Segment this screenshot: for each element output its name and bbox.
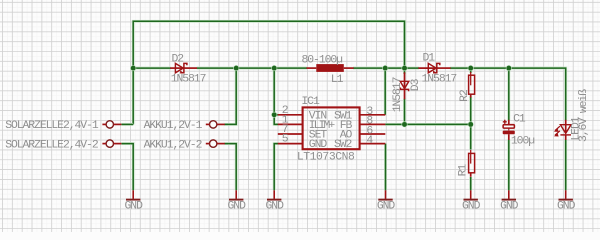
wire VIN branch bbox=[274, 113, 278, 116]
junction VIN pin bbox=[271, 112, 277, 118]
svg-text:1N5817: 1N5817 bbox=[422, 73, 457, 85]
resistor R1 bbox=[469, 153, 475, 172]
IC1 left pin 1 (ILIM+) bbox=[278, 123, 303, 125]
ground symbol GND (SW2) bbox=[385, 190, 387, 199]
wire diode row: L1 to D1 anode bbox=[353, 67, 419, 70]
svg-text:L1: L1 bbox=[331, 74, 344, 86]
svg-text:AKKU1,2V-1: AKKU1,2V-1 bbox=[144, 120, 203, 132]
LED LED1 bbox=[565, 120, 567, 133]
junction VIN net bbox=[271, 65, 277, 71]
inductor L1 bbox=[316, 64, 344, 72]
wire diode row: solar junction to D2 anode bbox=[133, 67, 171, 70]
junction D3/FB bbox=[402, 121, 408, 127]
svg-text:D2: D2 bbox=[172, 53, 185, 65]
svg-text:R1: R1 bbox=[458, 164, 470, 177]
svg-text:1N5817: 1N5817 bbox=[392, 77, 404, 112]
svg-text:AKKU1,2V-2: AKKU1,2V-2 bbox=[144, 139, 203, 151]
wire output: D1 cathode to LED branch bbox=[450, 68, 566, 120]
svg-text:D3: D3 bbox=[410, 78, 422, 91]
wire output to C1 bbox=[507, 68, 510, 120]
wire diode row: D2 cathode to L1 bbox=[197, 67, 307, 70]
junction D3 top bbox=[402, 65, 408, 71]
connector SOLARZELLE2,4V-1 pin circle bbox=[106, 121, 113, 128]
junction R2/R1/FB bbox=[468, 121, 474, 127]
junction R2 top bbox=[468, 65, 474, 71]
junction solar+/top bbox=[130, 65, 136, 71]
wire R2 bottom to FB bbox=[469, 97, 472, 125]
svg-text:C1: C1 bbox=[513, 114, 526, 126]
IC1 left pin 5 (GND) bbox=[278, 143, 303, 145]
svg-text:GND: GND bbox=[500, 200, 519, 212]
wire akku-2 down to GND bbox=[225, 144, 237, 191]
wire R2 top stub bbox=[469, 68, 472, 73]
wire akku-1 up to diode row bbox=[225, 68, 237, 124]
wire solarzelle-2 to GND bbox=[122, 144, 134, 191]
wire C1 to GND bbox=[507, 140, 510, 191]
connector AKKU1,2V-2 pin circle bbox=[210, 140, 217, 147]
junction SW1/L1/D1 bbox=[382, 65, 388, 71]
svg-text:GND: GND bbox=[125, 200, 144, 212]
IC1 left pin 2 (VIN) bbox=[278, 114, 303, 116]
IC1 left pin 7 (SET) bbox=[278, 133, 303, 135]
wire VIN/ILIM net vertical bbox=[274, 68, 278, 124]
svg-text:GND: GND bbox=[266, 200, 285, 212]
ground symbol GND (akku-) bbox=[235, 190, 237, 199]
wire IC GND pin5 to GND bbox=[274, 144, 278, 191]
connector AKKU1,2V-1 pin circle bbox=[210, 121, 217, 128]
svg-text:D1: D1 bbox=[423, 53, 436, 65]
svg-text:SOLARZELLE2,4V-1: SOLARZELLE2,4V-1 bbox=[5, 120, 99, 132]
junction C1 top bbox=[506, 65, 512, 71]
svg-text:GND: GND bbox=[462, 200, 481, 212]
wire FB row bbox=[385, 123, 471, 126]
wire D3 bottom to FB row bbox=[403, 99, 406, 125]
diode D1 1N5817 schottky bbox=[418, 67, 436, 69]
wire LED to GND bbox=[564, 140, 567, 191]
svg-text:GND: GND bbox=[557, 200, 576, 212]
IC1 right pin 4 (SW2) bbox=[360, 143, 386, 145]
wire solarzelle-1 to vertical bbox=[122, 123, 134, 126]
resistor R2 bbox=[469, 75, 475, 94]
diode D2 1N5817 schottky bbox=[170, 67, 184, 69]
svg-text:GND: GND bbox=[228, 200, 247, 212]
ground symbol GND (C1) bbox=[508, 190, 510, 199]
ground symbol GND (LED) bbox=[565, 190, 567, 199]
svg-text:IC1: IC1 bbox=[301, 96, 320, 108]
svg-text:80-100µ: 80-100µ bbox=[302, 55, 344, 67]
op-amp/regulator IC1 LT1073CN8 body bbox=[303, 107, 360, 149]
IC1 right pin 6 (AO) bbox=[360, 133, 386, 135]
svg-text:1N5817: 1N5817 bbox=[171, 74, 206, 86]
wire R1 to GND bbox=[469, 177, 472, 190]
svg-text:LT1073CN8: LT1073CN8 bbox=[297, 151, 355, 163]
svg-text:SOLARZELLE2,4V-2: SOLARZELLE2,4V-2 bbox=[5, 139, 99, 151]
ground symbol GND (IC pin5) bbox=[273, 190, 275, 199]
svg-text:R2: R2 bbox=[459, 89, 471, 102]
IC1 right pin 8 (FB) bbox=[360, 123, 386, 125]
wire SW2 down to GND bbox=[384, 144, 387, 191]
capacitor C1 polarized bbox=[508, 120, 510, 125]
wire FB to R1 bbox=[469, 124, 472, 149]
svg-text:GND: GND bbox=[309, 139, 328, 151]
svg-text:GND: GND bbox=[377, 200, 396, 212]
diode D3 1N5817 schottky vertical bbox=[404, 72, 406, 89]
svg-text:SW2: SW2 bbox=[334, 139, 353, 151]
svg-text:100µ: 100µ bbox=[511, 135, 535, 147]
connector SOLARZELLE2,4V-2 pin circle bbox=[106, 140, 113, 147]
wire SW1 up to diode row bbox=[384, 68, 387, 115]
IC1 right pin 3 (SW1) bbox=[360, 114, 386, 116]
svg-text:3,6V weiß: 3,6V weiß bbox=[578, 89, 590, 142]
ground symbol GND (R1) bbox=[470, 190, 472, 199]
ground symbol GND (solar-) bbox=[132, 190, 134, 199]
wire top bus from solar+ to D3 net bbox=[133, 21, 404, 124]
junction akku+ bbox=[233, 65, 239, 71]
